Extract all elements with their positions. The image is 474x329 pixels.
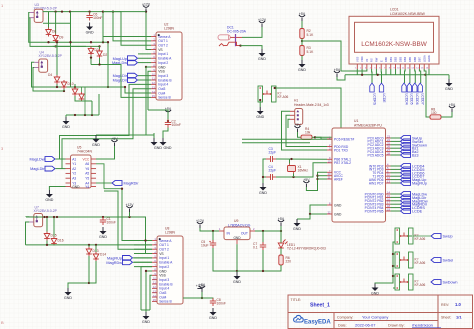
resistor R2 5.1K [300,29,304,39]
flag SwDown [431,280,441,285]
svg-text:GND: GND [45,198,53,202]
wire DC1 top [242,27,262,37]
svg-text:rhendrixson: rhendrixson [412,323,433,328]
flag LCDE [379,83,383,92]
svg-text:5.1K: 5.1K [307,33,315,37]
svg-text:IN: IN [227,232,231,236]
svg-text:GND: GND [99,235,107,239]
wire d13 down [68,256,89,288]
ground C6 [86,23,93,31]
ground reset [257,107,264,115]
wire c8 [183,298,213,300]
flag LCDD7 [418,83,422,92]
wire u8 enA [133,261,152,263]
wire rail y46 [52,45,86,47]
wire leda [424,69,430,117]
switch reset [258,86,263,102]
capacitor C2 [165,120,171,128]
node div [301,40,303,42]
wire rail y101 [63,89,65,91]
svg-text:LCDE: LCDE [412,210,423,214]
svg-text:GND: GND [209,316,217,320]
svg-text:DC-005-20A: DC-005-20A [227,30,247,34]
diode D15 [46,217,48,232]
svg-text:2022-06-07: 2022-06-07 [355,323,376,328]
svg-text:Y1: Y1 [72,162,76,166]
svg-text:A3: A3 [72,177,76,181]
svg-text:100nF: 100nF [172,123,181,127]
svg-text:+12V: +12V [196,284,205,288]
wires/flags u1 pd [391,165,401,167]
wire rail y42 [45,41,108,43]
svg-text:Company:: Company: [337,316,353,320]
svg-text:VDD: VDD [360,56,364,62]
ground switches [372,284,379,292]
svg-text:5.1K: 5.1K [307,50,315,54]
svg-text:GND: GND [334,203,342,207]
svg-text:GND: GND [233,280,241,284]
flag SwUp [431,234,441,239]
easyeda logo [294,315,332,325]
wire xtal top [276,158,327,160]
svg-text:100nF: 100nF [107,221,116,225]
svg-text:Sense B: Sense B [159,300,172,304]
svg-text:GND: GND [334,212,342,216]
svg-text:D16: D16 [58,239,64,243]
wires/flags u1 pb [391,193,401,195]
wire U2 senseB [91,65,151,98]
svg-text:LCDRS: LCDRS [372,94,376,106]
svg-text:DB7: DB7 [418,56,422,62]
ground u1 [294,219,301,227]
wire drop d9 [55,12,57,34]
svg-text:GND: GND [259,191,267,195]
resistor R6 220 [280,248,282,255]
svg-text:V0: V0 [365,58,369,62]
svg-text:Drawn By:: Drawn By: [388,324,405,328]
svg-text:GND: GND [72,185,80,189]
wire DC1 gnd [241,46,263,49]
svg-text:22pF: 22pF [269,151,277,155]
svg-text:1.0: 1.0 [455,302,461,307]
node j3 [56,86,58,88]
node j1 [54,10,56,12]
wire U2 in3 [138,75,151,77]
wire u8 vss [150,275,152,310]
wire lcd rs [371,69,373,83]
wire top rail [43,11,104,13]
wire lcd rail [345,74,449,76]
wire u5 y1 [96,164,104,189]
svg-text:Date:: Date: [338,324,347,328]
svg-text:D8: D8 [52,30,56,34]
svg-text:DB5: DB5 [408,56,412,62]
svg-text:1/1: 1/1 [456,315,462,320]
svg-text:L298N: L298N [164,27,175,31]
svg-text:DB2: DB2 [394,56,398,62]
wire u8 in1 [133,257,152,259]
wire switches gnd [375,242,395,284]
svg-text:Y6: Y6 [85,167,89,171]
svg-text:D14: D14 [100,253,106,257]
svg-text:XY128V-5.0-2P: XY128V-5.0-2P [39,54,63,58]
svg-text:16MHz: 16MHz [298,169,309,173]
svg-text:100nF: 100nF [93,16,102,20]
flag LCDD6 [413,83,417,92]
svg-text:LEDK: LEDK [427,55,431,62]
ground divider [299,60,306,68]
svg-text:MagRDir: MagRDir [124,182,140,186]
svg-text:TZ-L2-49YYBRORQJ0-003: TZ-L2-49YYBRORQJ0-003 [287,247,326,251]
svg-text:GND: GND [256,115,264,119]
svg-text:Sheet:: Sheet: [441,316,451,320]
resistor R8 [430,115,441,119]
capacitor C4e [212,231,214,242]
svg-text:D2: D2 [103,53,107,57]
svg-text:AREF: AREF [334,177,343,181]
svg-text:VSS: VSS [355,57,359,62]
ground lcd [448,75,450,79]
wire U7 loop [26,216,29,218]
svg-text:KF-A06: KF-A06 [415,237,426,241]
lcd pins [356,64,358,69]
svg-text:LCDD7: LCDD7 [421,94,425,105]
svg-text:LCM1602K-NSW-BBW: LCM1602K-NSW-BBW [361,41,428,48]
wire reg bottom [263,250,281,271]
wire h1 a [282,111,328,150]
diode D16 [51,237,57,246]
wire vcc c2 [167,116,169,121]
diode D3 [88,46,94,55]
svg-text:A2: A2 [72,167,76,171]
diode D14 [93,252,99,261]
wire U4 loop [32,62,58,87]
wire xtal left [263,159,266,177]
wire reg gnd [213,248,237,271]
wire U2 in1 [138,53,151,55]
ground diode rail [65,115,67,117]
switch K1 [395,228,400,244]
svg-text:Sense B: Sense B [158,96,171,100]
svg-text:LEDA: LEDA [422,55,426,62]
node j2 [47,41,49,43]
svg-text:D4: D4 [48,73,52,77]
wire U2 vs [146,12,151,50]
svg-text:H1: H1 [294,99,298,103]
svg-text:SwDown: SwDown [443,281,458,285]
flag LCDD4 [402,83,406,92]
wire U3 loop [29,13,45,43]
wire long y188 [104,188,122,190]
svg-text:GND: GND [64,296,72,300]
led LED1 [280,231,282,243]
svg-text:Sheet_1: Sheet_1 [310,303,330,309]
svg-text:D10: D10 [68,82,74,86]
diode D8 [46,28,52,37]
svg-text:RW: RW [375,57,379,62]
svg-text:GND: GND [258,57,266,61]
svg-text:KF-A06: KF-A06 [415,261,426,265]
diode D10 [61,80,67,89]
flag MagRDir u5 [112,181,122,186]
svg-text:EasyEDA: EasyEDA [304,320,331,326]
svg-text:GND: GND [86,31,94,35]
wire x99 up [98,94,100,115]
svg-text:B: B [1,320,4,325]
svg-text:MagLDir: MagLDir [113,79,128,83]
diode D4 [54,75,60,84]
wire u5 rail [59,135,61,137]
node u7 rail [43,216,45,218]
svg-text:GND: GND [293,227,301,231]
node lcd rail [377,74,379,76]
node DC1 [239,44,241,46]
svg-text:DB1: DB1 [389,56,393,62]
wire U2 senseA [103,37,151,43]
wire U2 enA [138,57,151,59]
capacitor C1 [102,217,104,219]
svg-text:22pF: 22pF [269,169,277,173]
svg-text:GND: GND [62,125,70,129]
svg-text:A6: A6 [85,162,89,166]
ground c8 [210,308,217,316]
svg-text:DB0: DB0 [384,56,388,62]
svg-text:LCM1602K-NSW-BBW: LCM1602K-NSW-BBW [390,12,426,16]
svg-text:KF-A06: KF-A06 [278,95,289,99]
wire drop x103 [102,12,104,43]
svg-text:DB6: DB6 [413,56,417,62]
resistor R3 5.1K [300,46,304,56]
wire U2 enB [138,79,151,81]
wire u5 y2 [96,182,112,184]
svg-text:GND: GND [298,68,306,72]
wire lcd v0 [341,69,367,71]
wire U2 out4 [125,87,151,93]
svg-text:74HC04N: 74HC04N [77,150,92,154]
flag SwSel [431,258,441,263]
svg-text:LCDD5: LCDD5 [410,94,414,105]
capacitor C6 [89,12,91,14]
flag LCDRS [370,83,374,92]
svg-text:SwSel: SwSel [443,259,454,263]
svg-text:100: 100 [431,111,437,115]
resistor R4 [301,135,312,139]
ground u8 [143,312,150,320]
svg-text:OUT: OUT [241,232,248,236]
svg-text:VCC: VCC [82,157,89,161]
ground DC1 [259,49,266,57]
svg-text:Y5: Y5 [85,177,89,181]
capacitor C8 [210,298,216,306]
diode D11 [72,87,78,96]
svg-text:GND: GND [233,236,241,240]
svg-text:10uF: 10uF [201,244,209,248]
wire x92 drop [91,101,93,115]
switch K2 [395,252,400,268]
wire rail y87 [57,86,108,88]
diode D9 [53,34,59,43]
wire d15 down [46,241,48,245]
wire reset gnd [259,100,261,107]
svg-text:100nF: 100nF [217,302,226,306]
diode D12 [79,92,85,101]
diode D13 [86,247,92,256]
svg-text:PC6 RESET#: PC6 RESET# [334,137,354,141]
svg-text:DB3: DB3 [398,56,402,62]
title block frame [288,295,473,329]
wire U2 out1 [113,12,151,41]
svg-text:PD1 TXD: PD1 TXD [334,148,348,152]
wire U2 in2 [138,62,151,64]
svg-text:RS: RS [370,58,374,62]
svg-text:U1: U1 [354,119,358,123]
wire rail y245 [26,244,153,246]
ground xtal [260,183,267,191]
flag LCDD5 [407,83,411,92]
svg-text:GND: GND [154,146,162,150]
svg-text:REV:: REV: [441,303,449,307]
ground C2 [163,128,168,139]
wire h1 b [286,115,327,146]
wire U2 out3 [62,89,151,169]
svg-text:LCDE: LCDE [382,94,386,104]
svg-text:U9: U9 [234,219,238,223]
svg-text:Y2: Y2 [72,172,76,176]
svg-text:L298N: L298N [165,231,176,235]
svg-text:220: 220 [286,260,292,264]
svg-text:PCINT5 PB5: PCINT5 PB5 [365,209,384,213]
wires/flags u1 adc [391,137,401,139]
svg-text:TITLE:: TITLE: [291,298,302,302]
svg-text:10k: 10k [305,131,311,135]
svg-text:PB7 XTAL2: PB7 XTAL2 [334,161,351,165]
svg-text:KF-A06: KF-A06 [415,283,426,287]
svg-text:Y4: Y4 [85,185,89,189]
wire reg in [200,228,219,231]
wire U2 vss [148,71,151,110]
svg-text:ATMEGA328P-PU: ATMEGA328P-PU [354,124,382,128]
wire div mid [301,39,303,46]
wire drop x70 [70,12,72,87]
svg-text:AIN1 PD7: AIN1 PD7 [369,181,384,185]
capacitor C7 [262,231,264,244]
diode D2 [99,46,101,49]
ground reg [236,271,238,272]
node U2 gnd [145,66,147,68]
wire u1 gnd [310,205,327,214]
switch K3 [395,274,400,290]
wire drop d8 [48,12,50,28]
wire rail y217 [43,217,153,254]
wire lcd e [380,69,382,83]
wire u1 reset [315,137,327,139]
svg-text:GND: GND [142,320,150,324]
wire reg out [255,230,281,232]
wire xtal bot [276,163,327,177]
wire h1 c [288,119,290,128]
wire rxd txd [242,138,333,140]
wire u8 in2 [141,267,152,310]
svg-text:A5: A5 [85,172,89,176]
ground d13 [65,288,72,296]
wire r4 left [298,132,302,137]
ground u5 [49,187,65,191]
svg-text:GND: GND [445,87,453,91]
wire U2 in4 [60,84,152,159]
wire rail y115 [66,114,99,116]
svg-text:MagLDir: MagLDir [30,167,45,171]
svg-text:GND: GND [92,143,100,147]
wire div gnd [301,56,303,61]
wire u8 out2 [104,191,152,249]
svg-text:LCD1: LCD1 [390,8,399,12]
svg-text:E: E [379,60,383,62]
svg-text:LCDD6: LCDD6 [415,94,419,105]
crystal X1 [288,166,296,172]
ground c1 [100,227,107,235]
svg-text:Header-Male-2.54_1x3: Header-Male-2.54_1x3 [294,103,329,107]
ground U2 left [96,134,146,136]
svg-text:D9: D9 [59,36,63,40]
wire u8 gnd [146,271,152,310]
wire lcd data [404,69,407,83]
svg-text:MagLDw: MagLDw [30,158,45,162]
wire div top [301,21,303,29]
wires u8 left stub [134,240,152,242]
svg-text:XY128V-5.0-2P: XY128V-5.0-2P [34,209,58,213]
wire div to V0 [302,41,341,71]
wire U2 gnd-down [146,67,154,135]
svg-text:A1: A1 [72,157,76,161]
wire U2 out2 [103,12,151,46]
svg-text:LCDD4: LCDD4 [404,94,408,105]
svg-text:0.1: 0.1 [253,246,258,250]
wire r4 right [312,136,315,138]
wire u8 senseA [122,189,152,241]
svg-text:MagRDw: MagRDw [106,261,122,265]
svg-text:GND: GND [164,146,172,150]
wire reset rst [275,88,341,137]
wire rail y46 ext [52,45,99,47]
svg-text:SwUp: SwUp [443,235,453,239]
wire k1 [408,235,413,237]
wire u8 gnd2 [141,309,150,311]
svg-text:Your Company: Your Company [362,315,388,320]
svg-text:DB4: DB4 [403,56,407,62]
svg-text:MagRUp: MagRUp [412,182,427,186]
svg-text:Bz3: Bz3 [412,154,419,158]
svg-text:PC5 ADC5: PC5 ADC5 [368,153,384,157]
